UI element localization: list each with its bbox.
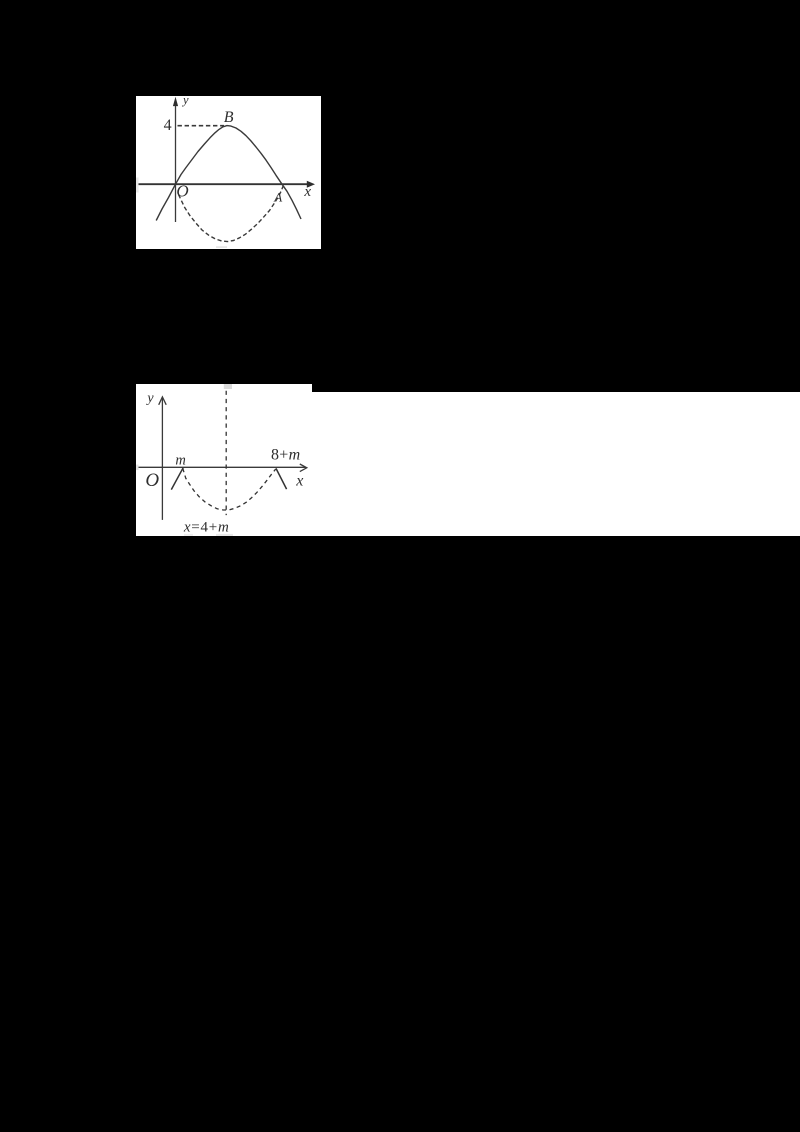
svg-text:O: O (176, 181, 188, 200)
svg-text:4: 4 (164, 116, 172, 133)
svg-text:A: A (273, 189, 282, 204)
svg-text:8+m: 8+m (271, 446, 300, 463)
svg-text:m: m (175, 452, 185, 468)
svg-text:x: x (295, 472, 303, 489)
svg-text:x=4+m: x=4+m (183, 519, 230, 535)
svg-text:x: x (303, 183, 311, 199)
svg-text:y: y (145, 391, 154, 406)
svg-text:y: y (181, 96, 189, 107)
svg-text:B: B (224, 109, 234, 126)
svg-text:O: O (145, 470, 159, 491)
